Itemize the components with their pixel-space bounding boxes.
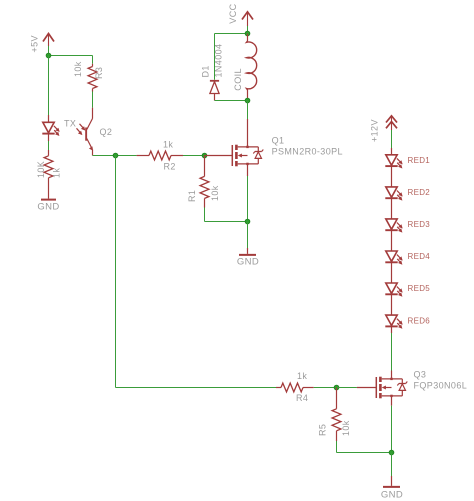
- supply VCC: [242, 12, 253, 26]
- svg-text:R5: R5: [318, 424, 328, 436]
- wire: [337, 452, 392, 454]
- svg-text:RED1: RED1: [408, 156, 431, 165]
- node Q1 gate junction: [202, 153, 207, 158]
- resistor 10K 1k: [44, 150, 53, 199]
- svg-text:10k: 10k: [210, 185, 220, 201]
- wire: [391, 198, 393, 219]
- wire: [391, 130, 393, 148]
- wire: [215, 100, 248, 102]
- supply +12V: [386, 116, 397, 130]
- wire: [116, 387, 277, 389]
- svg-text:10K: 10K: [36, 161, 46, 178]
- svg-text:D1: D1: [201, 65, 211, 77]
- svg-text:VCC: VCC: [228, 3, 238, 23]
- svg-text:10k: 10k: [73, 61, 83, 77]
- wire: [92, 92, 94, 108]
- node Q1 source junction: [245, 219, 250, 224]
- ground GND middle: [237, 248, 259, 268]
- node Q2 emitter junction: [113, 153, 118, 158]
- LED RED5: [385, 283, 430, 297]
- wire: [391, 294, 393, 315]
- ground GND left: [37, 200, 59, 213]
- svg-text:R1: R1: [187, 190, 197, 202]
- wire: [247, 101, 249, 120]
- svg-text:RED6: RED6: [408, 316, 431, 325]
- svg-text:+5V: +5V: [30, 35, 40, 52]
- node coil bottom junction: [245, 98, 250, 103]
- node R5 bottom junction: [389, 450, 394, 455]
- LED RED2: [385, 187, 430, 201]
- svg-text:R3: R3: [94, 67, 104, 79]
- resistor R1 10k: [200, 156, 209, 208]
- svg-text:1k: 1k: [52, 168, 62, 178]
- svg-text:1k: 1k: [163, 140, 173, 150]
- wire: [336, 441, 338, 453]
- node +5V junction: [46, 53, 51, 58]
- wire: [391, 406, 393, 453]
- svg-text:GND: GND: [37, 202, 59, 213]
- transistor Q1 PSMN2R0-30PL: [205, 119, 343, 176]
- node R4 junction: [334, 385, 339, 390]
- LED RED6: [385, 315, 430, 329]
- LED RED4: [385, 251, 430, 265]
- ground GND bottom: [381, 476, 403, 501]
- svg-text:Q2: Q2: [100, 127, 113, 137]
- LED RED3: [385, 219, 430, 233]
- wire: [247, 176, 249, 222]
- wire: [391, 333, 393, 371]
- svg-text:1k: 1k: [297, 371, 307, 381]
- svg-text:GND: GND: [381, 490, 403, 501]
- wire: [183, 155, 205, 157]
- LED RED1: [385, 148, 430, 169]
- wire: [48, 46, 50, 56]
- wire: [391, 326, 393, 333]
- wire: [391, 230, 393, 251]
- wire: [214, 34, 216, 80]
- wire: [247, 26, 249, 34]
- svg-text:RED4: RED4: [408, 252, 431, 261]
- wire: [92, 56, 94, 64]
- svg-text:GND: GND: [237, 257, 259, 268]
- wire: [391, 262, 393, 283]
- wire: [314, 387, 337, 389]
- resistor R5 10k: [332, 388, 341, 442]
- svg-text:FQP30N06L: FQP30N06L: [414, 380, 468, 390]
- transistor Q3 FQP30N06L: [357, 369, 467, 405]
- wire: [247, 222, 249, 249]
- svg-text:+12V: +12V: [370, 119, 380, 142]
- svg-text:RED2: RED2: [408, 188, 431, 197]
- supply +5V: [43, 34, 54, 47]
- transistor Q2 phototransistor: [77, 108, 113, 156]
- svg-text:R2: R2: [164, 162, 176, 172]
- wire: [115, 156, 117, 388]
- diode D1 1N4004: [210, 81, 219, 101]
- resistor R2 1k: [137, 151, 183, 160]
- svg-text:TX: TX: [64, 119, 76, 129]
- resistor R4 1k: [276, 383, 314, 392]
- wire: [205, 221, 248, 223]
- svg-text:RED5: RED5: [408, 284, 431, 293]
- resistor R3 10k: [88, 64, 97, 92]
- wire: [48, 141, 50, 150]
- svg-text:R4: R4: [296, 393, 308, 403]
- wire: [48, 56, 50, 116]
- svg-text:PSMN2R0-30PL: PSMN2R0-30PL: [272, 146, 343, 156]
- wire: [391, 453, 393, 477]
- svg-text:Q3: Q3: [414, 369, 427, 379]
- wire: [337, 387, 357, 389]
- wire: [204, 208, 206, 222]
- svg-text:RED3: RED3: [408, 220, 431, 229]
- wire: [49, 55, 93, 57]
- LED TX: [42, 115, 59, 141]
- node VCC junction: [245, 31, 250, 36]
- inductor COIL: [247, 34, 257, 101]
- svg-text:COIL: COIL: [233, 68, 243, 91]
- svg-text:10k: 10k: [341, 420, 351, 436]
- svg-text:1N4004: 1N4004: [214, 44, 224, 78]
- wire: [215, 33, 248, 35]
- wire: [93, 155, 137, 157]
- svg-text:Q1: Q1: [272, 136, 285, 146]
- wire: [391, 166, 393, 187]
